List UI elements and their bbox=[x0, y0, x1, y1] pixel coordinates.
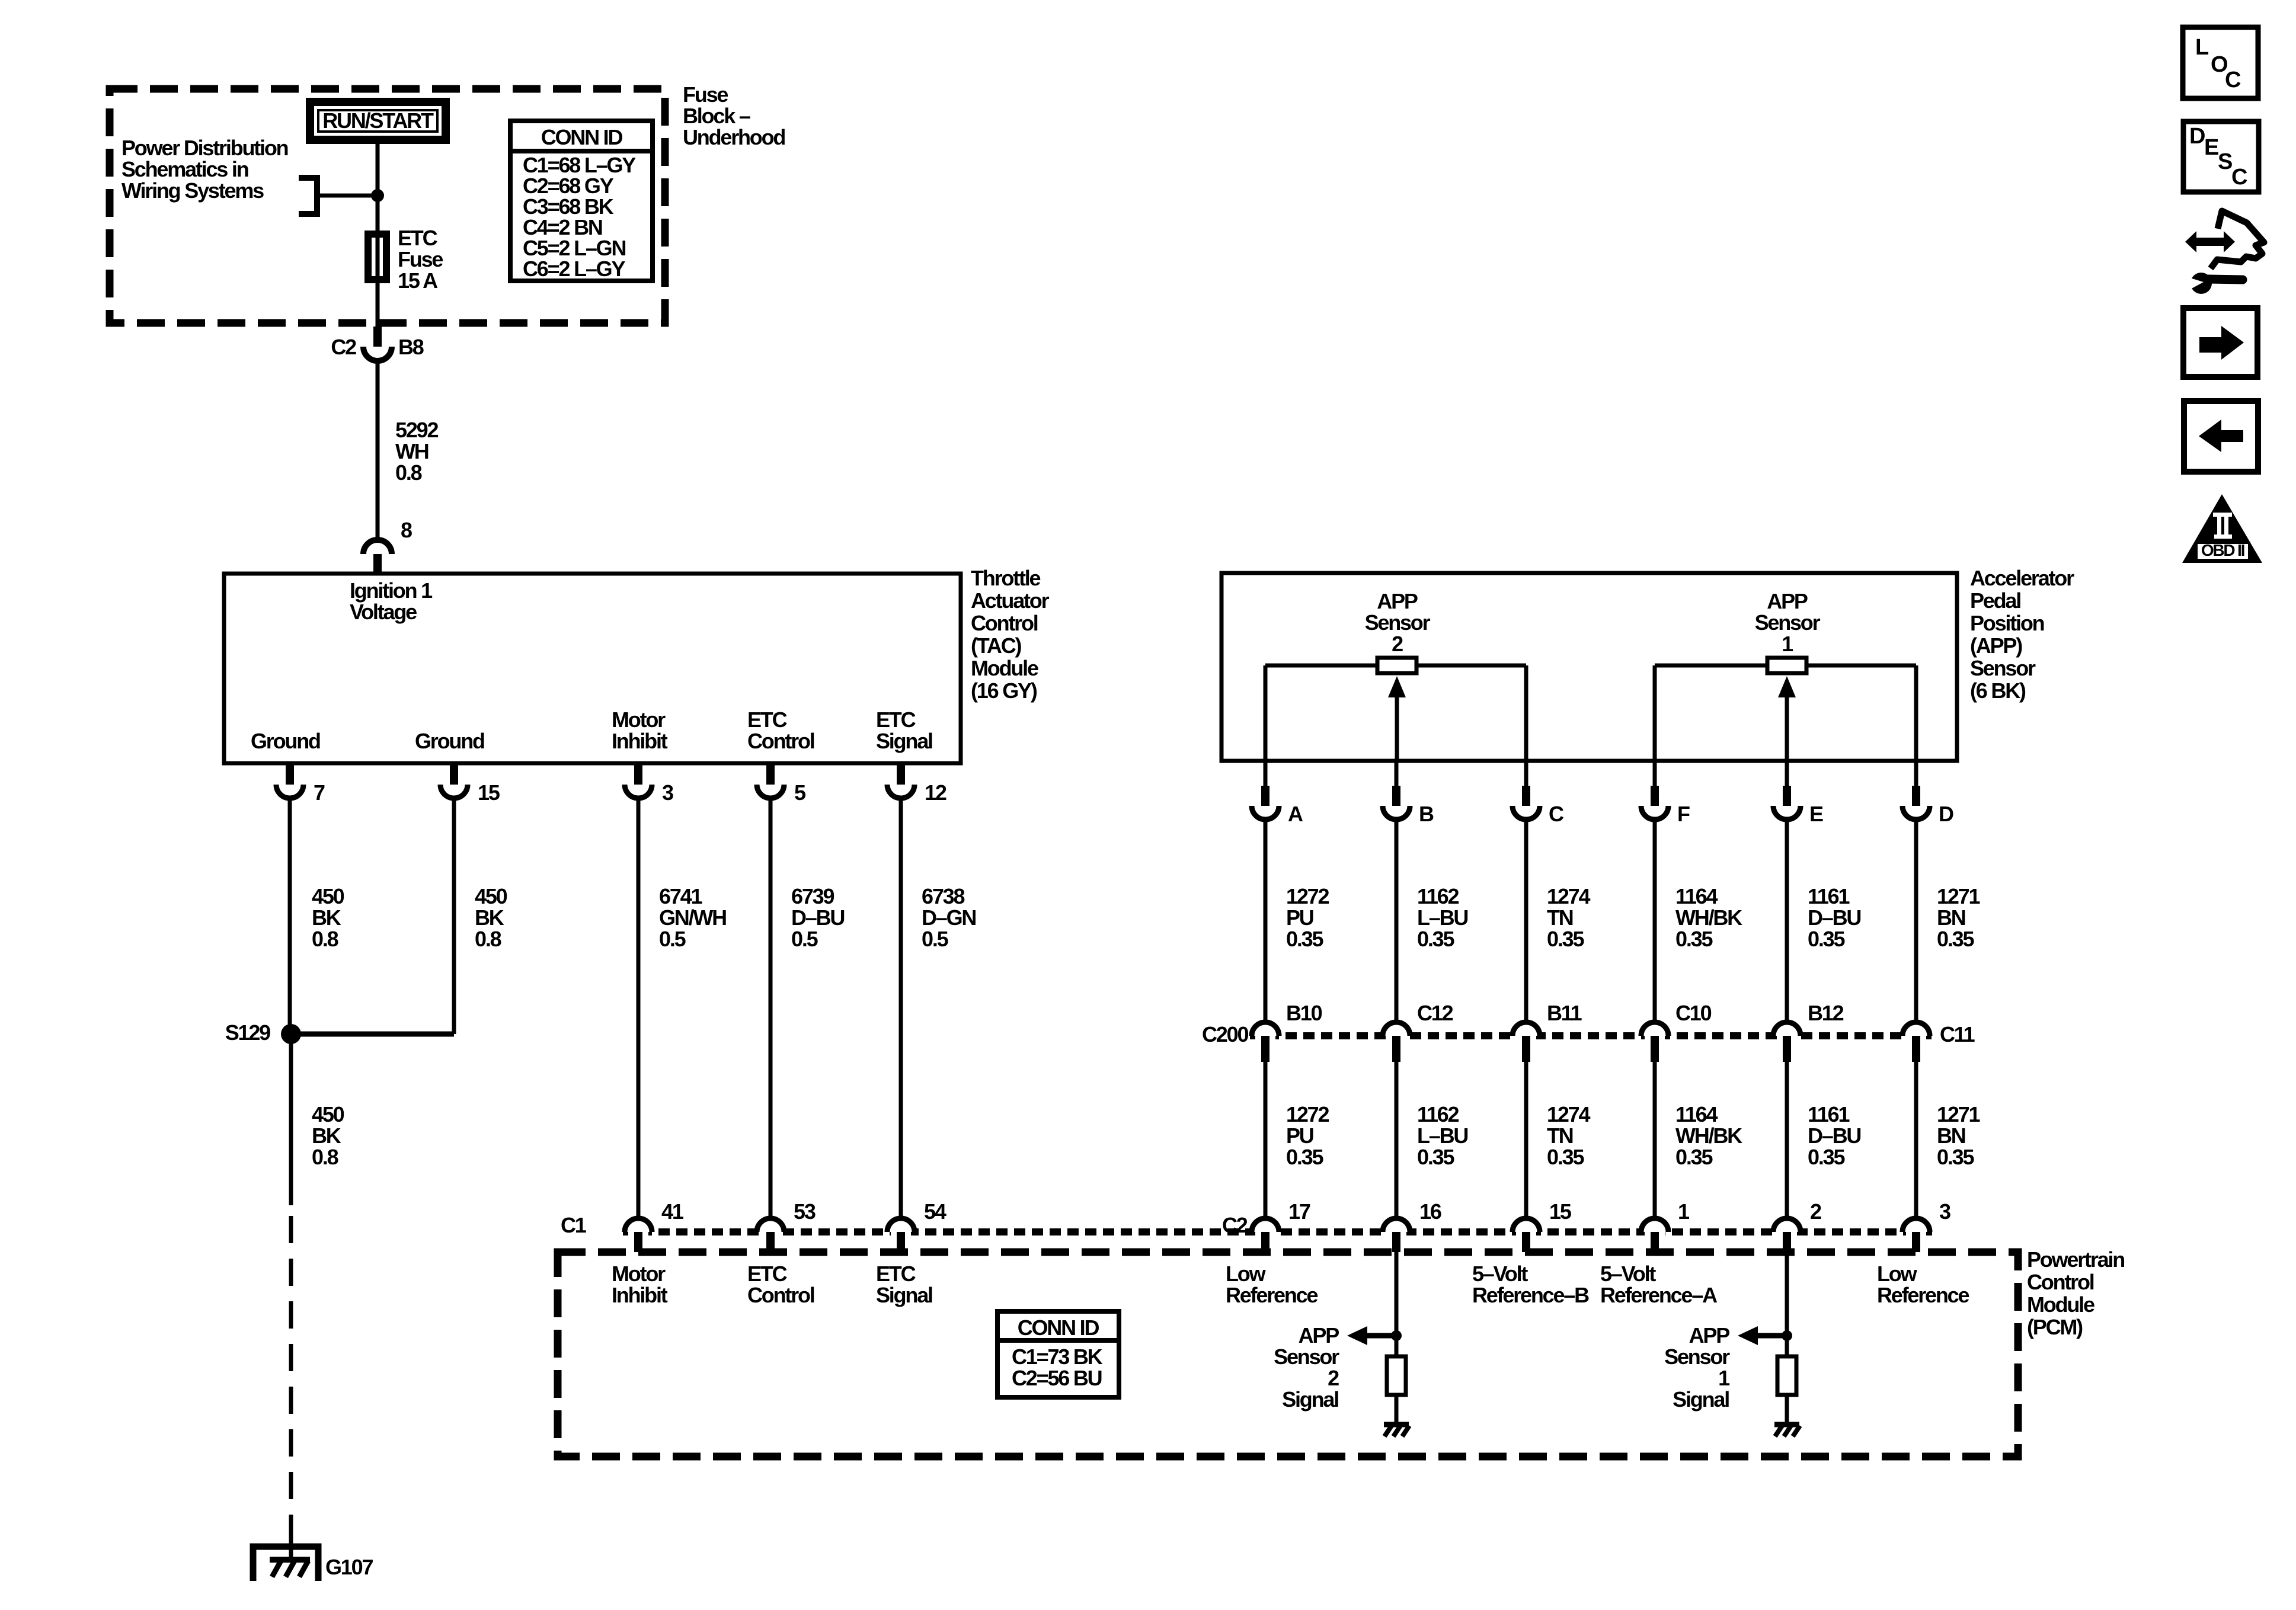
svg-text:1272: 1272 bbox=[1286, 884, 1329, 908]
svg-text:Module: Module bbox=[971, 656, 1038, 680]
APP Sensor 1 Signal arrow bbox=[1738, 1326, 1758, 1345]
svg-text:D–BU: D–BU bbox=[1808, 905, 1860, 930]
svg-text:C6=2 L–GY: C6=2 L–GY bbox=[523, 257, 625, 281]
ground (sensor 1 pull-down) bbox=[1774, 1422, 1799, 1427]
svg-text:2: 2 bbox=[1328, 1366, 1339, 1390]
wire C200 to PCM bbox=[1395, 1062, 1399, 1219]
TAC module box bbox=[224, 574, 961, 763]
svg-text:GN/WH: GN/WH bbox=[659, 905, 726, 930]
svg-text:Throttle: Throttle bbox=[971, 566, 1041, 590]
svg-text:Reference–B: Reference–B bbox=[1472, 1283, 1589, 1307]
svg-text:6739: 6739 bbox=[791, 884, 834, 908]
svg-text:0.35: 0.35 bbox=[1675, 1145, 1713, 1169]
connector C2 pin 15 bbox=[1512, 1218, 1540, 1232]
icon diagnostic (arrows and wrench) bbox=[2185, 231, 2235, 252]
wire RUN/START to fuse bbox=[376, 142, 380, 327]
svg-text:Motor: Motor bbox=[612, 708, 666, 732]
svg-text:Schematics in: Schematics in bbox=[121, 157, 248, 181]
svg-text:WH: WH bbox=[395, 439, 428, 463]
wire resistor to ground bbox=[1785, 1395, 1789, 1425]
svg-text:Ground: Ground bbox=[251, 729, 320, 753]
svg-text:S: S bbox=[2218, 149, 2232, 174]
svg-text:PU: PU bbox=[1286, 905, 1313, 930]
svg-text:OBD II: OBD II bbox=[2201, 541, 2244, 559]
svg-text:L–BU: L–BU bbox=[1417, 905, 1467, 930]
APP sensor box bbox=[1221, 573, 1957, 761]
svg-text:F: F bbox=[1677, 802, 1690, 826]
svg-text:0.5: 0.5 bbox=[791, 927, 818, 951]
svg-text:WH/BK: WH/BK bbox=[1675, 905, 1742, 930]
wire C200 to PCM bbox=[1785, 1062, 1789, 1219]
svg-text:Sensor: Sensor bbox=[1365, 610, 1431, 635]
svg-text:(16 GY): (16 GY) bbox=[971, 678, 1037, 703]
wire APP to C200 bbox=[1914, 818, 1918, 1023]
svg-text:C2: C2 bbox=[1222, 1213, 1248, 1237]
wire TAC pin 15 to S129 bbox=[452, 796, 456, 1034]
svg-text:Inhibit: Inhibit bbox=[612, 729, 668, 753]
svg-text:TN: TN bbox=[1547, 905, 1573, 930]
connector C1 pin 53 bbox=[757, 1218, 784, 1232]
svg-text:1271: 1271 bbox=[1937, 1102, 1980, 1126]
svg-text:Accelerator: Accelerator bbox=[1970, 566, 2074, 590]
svg-text:ETC: ETC bbox=[398, 226, 438, 250]
svg-text:C2: C2 bbox=[331, 335, 356, 359]
bracket to power distribution note bbox=[299, 178, 317, 214]
connector C2 pin B8 bbox=[363, 347, 392, 361]
svg-text:C11: C11 bbox=[1940, 1022, 1975, 1046]
wire APP to C200 bbox=[1653, 818, 1657, 1023]
svg-text:1162: 1162 bbox=[1417, 884, 1459, 908]
svg-text:Signal: Signal bbox=[876, 1283, 932, 1307]
svg-text:1: 1 bbox=[1678, 1199, 1690, 1224]
svg-text:15 A: 15 A bbox=[398, 268, 438, 293]
svg-text:1272: 1272 bbox=[1286, 1102, 1329, 1126]
svg-text:TN: TN bbox=[1547, 1124, 1573, 1148]
svg-text:Wiring Systems: Wiring Systems bbox=[121, 178, 264, 203]
svg-text:C: C bbox=[2231, 165, 2247, 190]
svg-text:15: 15 bbox=[478, 780, 500, 805]
wire C200 to PCM bbox=[1264, 1062, 1268, 1219]
svg-text:A: A bbox=[1288, 802, 1303, 826]
junction node on ignition feed bbox=[371, 189, 384, 202]
svg-text:G107: G107 bbox=[325, 1555, 373, 1579]
svg-text:(TAC): (TAC) bbox=[971, 633, 1022, 658]
connector TAC pin 3 bbox=[634, 763, 642, 785]
svg-text:Module: Module bbox=[2027, 1292, 2094, 1317]
ground (sensor 2 pull-down) bbox=[1384, 1422, 1409, 1427]
svg-text:APP: APP bbox=[1299, 1323, 1339, 1347]
svg-text:Reference–A: Reference–A bbox=[1600, 1283, 1718, 1307]
svg-text:Powertrain: Powertrain bbox=[2027, 1247, 2124, 1272]
svg-text:Sensor: Sensor bbox=[1755, 610, 1821, 635]
svg-text:WH/BK: WH/BK bbox=[1675, 1124, 1742, 1148]
wire resistor to ground bbox=[1395, 1395, 1399, 1425]
svg-text:0.35: 0.35 bbox=[1286, 927, 1323, 951]
svg-text:450: 450 bbox=[312, 1102, 344, 1126]
connector C200 pin B11 bbox=[1512, 1022, 1540, 1036]
svg-text:1: 1 bbox=[1718, 1366, 1730, 1390]
svg-text:Low: Low bbox=[1877, 1262, 1918, 1286]
svg-text:Block –: Block – bbox=[683, 104, 750, 128]
svg-text:C200: C200 bbox=[1202, 1022, 1248, 1046]
wire C200 to PCM bbox=[1524, 1062, 1528, 1219]
icon forward arrow box bbox=[2183, 308, 2257, 377]
ground G107 bbox=[289, 1536, 293, 1560]
svg-text:C: C bbox=[2225, 68, 2241, 92]
svg-text:Inhibit: Inhibit bbox=[612, 1283, 668, 1307]
fuse block - underhood (dashed box) bbox=[110, 89, 665, 323]
svg-text:0.35: 0.35 bbox=[1675, 927, 1713, 951]
svg-text:E: E bbox=[2204, 135, 2218, 160]
svg-text:B10: B10 bbox=[1286, 1001, 1322, 1025]
S129 splice bbox=[281, 1024, 301, 1044]
icon LOC box bbox=[2183, 27, 2258, 98]
svg-text:ETC: ETC bbox=[876, 708, 916, 732]
svg-text:0.35: 0.35 bbox=[1808, 1145, 1845, 1169]
connector APP pin A bbox=[1264, 761, 1268, 786]
connector C2 pin B8 stub bbox=[373, 327, 382, 347]
svg-text:1274: 1274 bbox=[1547, 1102, 1590, 1126]
svg-text:RUN/START: RUN/START bbox=[322, 108, 434, 133]
svg-text:7: 7 bbox=[314, 780, 325, 805]
wire APP to C200 bbox=[1264, 818, 1268, 1023]
wire PCM pin 16 to resistor bbox=[1395, 1252, 1399, 1356]
svg-text:1: 1 bbox=[1782, 632, 1793, 656]
PCM CONN ID table bbox=[997, 1311, 1119, 1397]
icon back arrow box bbox=[2184, 401, 2258, 472]
connector row C1/C2 dashed line bbox=[623, 1228, 1933, 1235]
svg-text:C1=73 BK: C1=73 BK bbox=[1012, 1345, 1103, 1369]
svg-text:8: 8 bbox=[401, 518, 412, 542]
svg-text:0.35: 0.35 bbox=[1417, 927, 1454, 951]
wire pot1 left leg bbox=[1653, 665, 1657, 761]
svg-text:5: 5 bbox=[794, 780, 806, 805]
connector C200 pin C11 bbox=[1902, 1022, 1930, 1036]
svg-text:Signal: Signal bbox=[1282, 1387, 1338, 1411]
wire pot2 right leg bbox=[1524, 665, 1528, 761]
svg-text:Voltage: Voltage bbox=[350, 600, 417, 624]
connector C200 pin B12 bbox=[1773, 1022, 1801, 1036]
svg-text:Actuator: Actuator bbox=[971, 588, 1050, 613]
svg-text:PU: PU bbox=[1286, 1124, 1313, 1148]
svg-text:0.8: 0.8 bbox=[312, 927, 338, 951]
svg-text:C1: C1 bbox=[561, 1213, 587, 1237]
svg-text:Signal: Signal bbox=[1673, 1387, 1729, 1411]
svg-text:6741: 6741 bbox=[659, 884, 702, 908]
svg-text:0.35: 0.35 bbox=[1286, 1145, 1323, 1169]
svg-text:BN: BN bbox=[1937, 905, 1965, 930]
connector C2 pin 16 bbox=[1383, 1218, 1410, 1232]
svg-text:Control: Control bbox=[747, 1283, 814, 1307]
connector C200 pin C10 bbox=[1641, 1022, 1668, 1036]
svg-text:Reference: Reference bbox=[1877, 1283, 1969, 1307]
connector APP pin E bbox=[1785, 761, 1789, 786]
svg-text:Pedal: Pedal bbox=[1970, 588, 2020, 613]
wire fuse block to TAC pin 8 bbox=[376, 358, 380, 540]
wire PCM pin 2 to resistor bbox=[1785, 1252, 1789, 1356]
svg-text:BK: BK bbox=[475, 905, 504, 930]
fuse block CONN ID table bbox=[510, 121, 653, 281]
svg-text:0.35: 0.35 bbox=[1547, 1145, 1584, 1169]
svg-text:L–BU: L–BU bbox=[1417, 1124, 1467, 1148]
connector APP pin C bbox=[1524, 761, 1528, 786]
svg-text:Sensor: Sensor bbox=[1664, 1345, 1730, 1369]
connector TAC pin 15 bbox=[450, 763, 458, 785]
svg-text:C: C bbox=[1549, 802, 1564, 826]
svg-text:3: 3 bbox=[1939, 1199, 1950, 1224]
fuse ETC 15 A bbox=[368, 234, 386, 280]
svg-text:Control: Control bbox=[971, 611, 1038, 635]
svg-text:1161: 1161 bbox=[1808, 1102, 1850, 1126]
switch RUN/START box bbox=[310, 102, 446, 140]
svg-text:5–Volt: 5–Volt bbox=[1600, 1262, 1656, 1286]
svg-text:(6 BK): (6 BK) bbox=[1970, 678, 2026, 703]
wire APP to C200 bbox=[1785, 818, 1789, 1023]
connector APP pin B bbox=[1395, 761, 1399, 786]
svg-text:5–Volt: 5–Volt bbox=[1472, 1262, 1528, 1286]
svg-text:D: D bbox=[2189, 124, 2205, 149]
resistor R1 (APP sensor 2 signal) bbox=[1387, 1356, 1406, 1395]
wire APP to C200 bbox=[1524, 818, 1528, 1023]
wire C200 to PCM bbox=[1653, 1062, 1657, 1219]
svg-text:1274: 1274 bbox=[1547, 884, 1590, 908]
APP Sensor 2 Signal arrow bbox=[1347, 1326, 1367, 1345]
connector C2 pin 17 bbox=[1252, 1218, 1279, 1232]
potentiometer APP sensor 2 bbox=[1265, 664, 1377, 668]
connector TAC pin 8 bbox=[363, 540, 392, 554]
svg-text:Fuse: Fuse bbox=[398, 247, 443, 271]
svg-text:0.35: 0.35 bbox=[1937, 1145, 1974, 1169]
connector TAC pin 12 bbox=[897, 763, 905, 785]
PCM box (dashed) bbox=[558, 1252, 2018, 1457]
wire pot2 left leg bbox=[1264, 665, 1268, 761]
connector C200 pin B10 bbox=[1252, 1022, 1279, 1036]
svg-text:APP: APP bbox=[1377, 589, 1418, 613]
icon DESC box bbox=[2183, 121, 2259, 192]
connector C1 pin 54 bbox=[887, 1218, 914, 1232]
svg-text:D–BU: D–BU bbox=[791, 905, 844, 930]
svg-text:Motor: Motor bbox=[612, 1262, 666, 1286]
svg-text:5292: 5292 bbox=[395, 418, 438, 442]
svg-text:3: 3 bbox=[662, 780, 673, 805]
svg-text:APP: APP bbox=[1689, 1323, 1730, 1347]
svg-text:Control: Control bbox=[747, 729, 814, 753]
svg-text:ETC: ETC bbox=[747, 708, 788, 732]
potentiometer APP sensor 1 bbox=[1655, 664, 1767, 668]
svg-text:C2=56 BU: C2=56 BU bbox=[1012, 1366, 1102, 1390]
svg-text:450: 450 bbox=[312, 884, 344, 908]
svg-text:12: 12 bbox=[925, 780, 946, 805]
svg-text:2: 2 bbox=[1810, 1199, 1821, 1224]
connector C200 dashed line bbox=[1250, 1032, 1932, 1039]
svg-text:APP: APP bbox=[1767, 589, 1808, 613]
svg-text:L: L bbox=[2195, 35, 2209, 60]
connector TAC pin 7 bbox=[286, 763, 294, 785]
svg-text:1271: 1271 bbox=[1937, 884, 1980, 908]
svg-text:C10: C10 bbox=[1675, 1001, 1712, 1025]
svg-text:Sensor: Sensor bbox=[1274, 1345, 1339, 1369]
svg-text:Sensor: Sensor bbox=[1970, 656, 2036, 680]
svg-text:D: D bbox=[1939, 802, 1953, 826]
connector C2 pin 3 bbox=[1902, 1218, 1930, 1232]
svg-text:0.35: 0.35 bbox=[1417, 1145, 1454, 1169]
svg-text:B: B bbox=[1419, 802, 1434, 826]
svg-text:1164: 1164 bbox=[1675, 884, 1718, 908]
svg-text:Power Distribution: Power Distribution bbox=[121, 136, 288, 160]
svg-text:B11: B11 bbox=[1547, 1001, 1582, 1025]
wire ETC control TAC to PCM bbox=[769, 796, 773, 1219]
svg-text:53: 53 bbox=[794, 1199, 816, 1224]
svg-text:0.35: 0.35 bbox=[1808, 927, 1845, 951]
svg-text:54: 54 bbox=[924, 1199, 946, 1224]
svg-text:(PCM): (PCM) bbox=[2027, 1315, 2083, 1339]
svg-text:Ignition 1: Ignition 1 bbox=[350, 578, 433, 603]
svg-text:1161: 1161 bbox=[1808, 884, 1850, 908]
pot1 wiper arrow bbox=[1778, 676, 1796, 697]
svg-text:CONN ID: CONN ID bbox=[541, 125, 623, 149]
wire ETC signal TAC to PCM bbox=[899, 796, 903, 1219]
wire APP to C200 bbox=[1395, 818, 1399, 1023]
svg-text:0.8: 0.8 bbox=[395, 460, 422, 485]
svg-text:S129: S129 bbox=[225, 1020, 270, 1045]
pot2 wiper arrow bbox=[1388, 676, 1406, 697]
icon OBD II bbox=[2182, 494, 2262, 563]
svg-text:0.5: 0.5 bbox=[659, 927, 686, 951]
svg-text:B12: B12 bbox=[1808, 1001, 1844, 1025]
svg-text:BK: BK bbox=[312, 1124, 341, 1148]
svg-text:Fuse: Fuse bbox=[683, 82, 728, 107]
connector C2 pin 2 bbox=[1773, 1218, 1801, 1232]
svg-text:41: 41 bbox=[661, 1199, 684, 1224]
wire C200 to PCM bbox=[1914, 1062, 1918, 1219]
svg-text:6738: 6738 bbox=[922, 884, 964, 908]
resistor R2 (APP sensor 1 signal) bbox=[1777, 1356, 1796, 1395]
svg-text:ETC: ETC bbox=[876, 1262, 916, 1286]
wire TAC pin 7 to S129 bbox=[288, 796, 292, 1034]
svg-text:Control: Control bbox=[2027, 1270, 2094, 1294]
svg-text:16: 16 bbox=[1419, 1199, 1441, 1224]
svg-text:17: 17 bbox=[1288, 1199, 1310, 1224]
svg-text:0.5: 0.5 bbox=[922, 927, 949, 951]
wire bracket to junction bbox=[317, 194, 378, 198]
connector C1 pin 41 bbox=[625, 1218, 652, 1232]
svg-text:C12: C12 bbox=[1417, 1001, 1453, 1025]
svg-text:0.35: 0.35 bbox=[1937, 927, 1974, 951]
svg-text:15: 15 bbox=[1549, 1199, 1572, 1224]
connector C2 pin 1 bbox=[1641, 1218, 1668, 1232]
svg-text:Underhood: Underhood bbox=[683, 125, 785, 149]
svg-text:Ground: Ground bbox=[415, 729, 484, 753]
svg-text:B8: B8 bbox=[398, 335, 424, 359]
svg-text:Signal: Signal bbox=[876, 729, 932, 753]
svg-text:2: 2 bbox=[1392, 632, 1403, 656]
svg-text:E: E bbox=[1809, 802, 1823, 826]
svg-text:0.8: 0.8 bbox=[312, 1145, 338, 1169]
svg-text:0.35: 0.35 bbox=[1547, 927, 1584, 951]
connector APP pin D bbox=[1914, 761, 1918, 786]
wire pot1 right leg bbox=[1914, 665, 1918, 761]
svg-text:ETC: ETC bbox=[747, 1262, 788, 1286]
connector APP pin F bbox=[1653, 761, 1657, 786]
svg-text:1162: 1162 bbox=[1417, 1102, 1459, 1126]
wire motor inhibit TAC to PCM bbox=[637, 796, 641, 1219]
svg-text:CONN ID: CONN ID bbox=[1018, 1315, 1099, 1340]
wire fuse to fuse block edge bbox=[376, 280, 380, 327]
svg-text:BK: BK bbox=[312, 905, 341, 930]
svg-text:Reference: Reference bbox=[1226, 1283, 1318, 1307]
svg-text:D–BU: D–BU bbox=[1808, 1124, 1860, 1148]
svg-text:1164: 1164 bbox=[1675, 1102, 1718, 1126]
svg-text:D–GN: D–GN bbox=[922, 905, 976, 930]
svg-text:(APP): (APP) bbox=[1970, 633, 2022, 658]
svg-text:Low: Low bbox=[1226, 1262, 1267, 1286]
svg-text:450: 450 bbox=[475, 884, 507, 908]
connector C200 pin C12 bbox=[1383, 1022, 1410, 1036]
connector TAC pin 5 bbox=[766, 763, 775, 785]
svg-text:0.8: 0.8 bbox=[475, 927, 501, 951]
wire S129 to G107 bbox=[289, 1034, 293, 1205]
svg-text:Position: Position bbox=[1970, 611, 2044, 635]
svg-text:BN: BN bbox=[1937, 1124, 1965, 1148]
